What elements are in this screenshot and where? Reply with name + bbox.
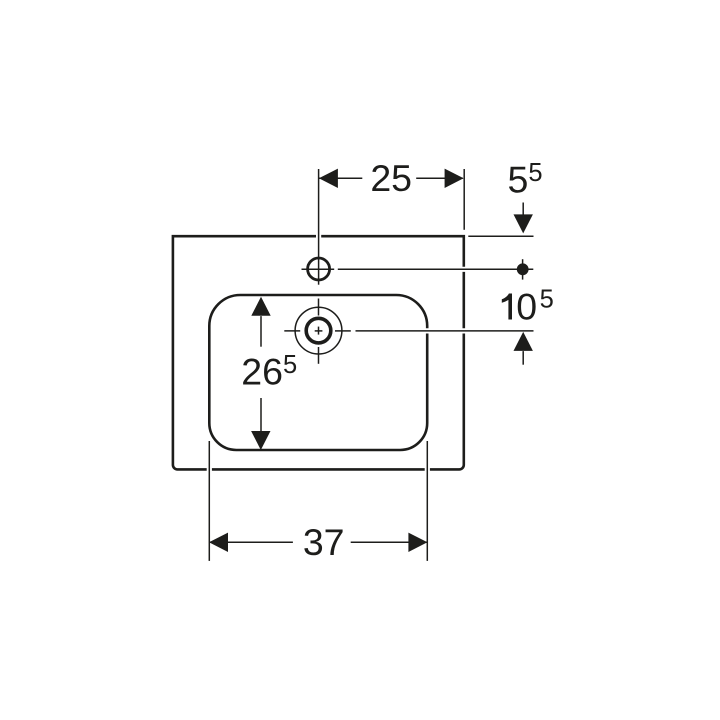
svg-text:37: 37 bbox=[303, 521, 345, 563]
svg-text:25: 25 bbox=[370, 157, 412, 199]
